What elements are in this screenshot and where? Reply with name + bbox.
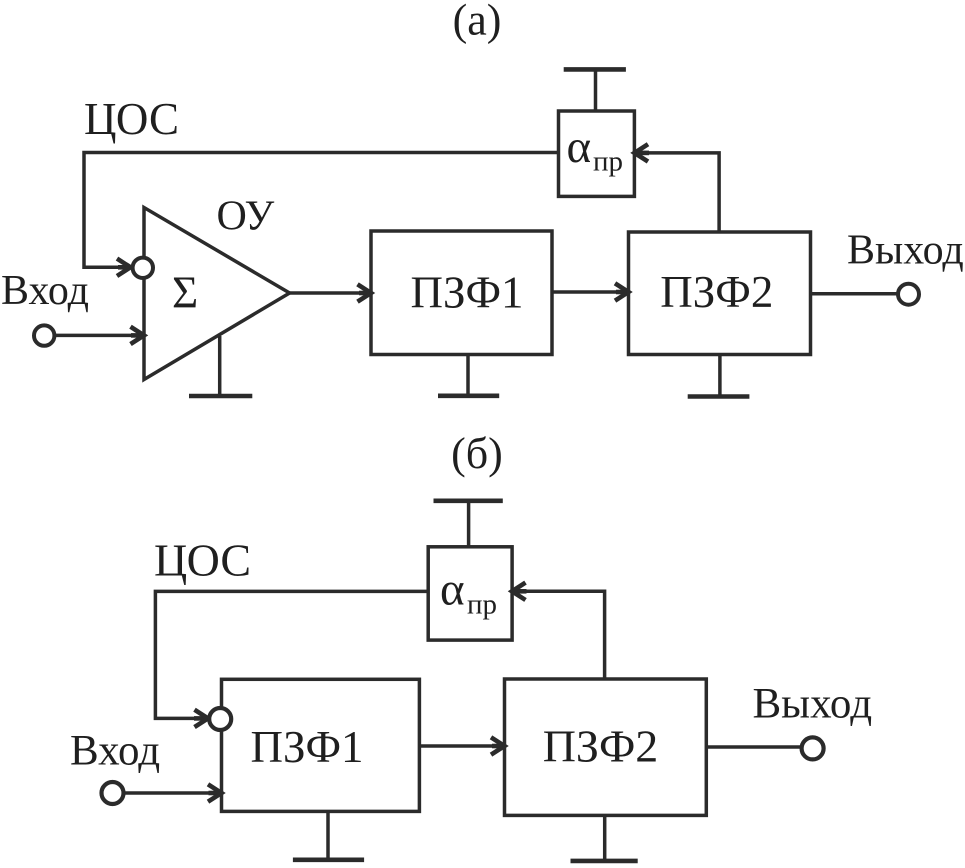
- label Выход (б): [753, 681, 873, 728]
- ground under ПЗФ2 (б): [571, 815, 638, 861]
- svg-text:Выход: Выход: [753, 681, 873, 728]
- wire input to summer (a): [55, 334, 132, 338]
- svg-text:ОУ: ОУ: [217, 194, 275, 240]
- label (a): [453, 0, 502, 45]
- svg-text:Вход: Вход: [1, 268, 89, 314]
- arrow into summer inverting input (a): [117, 259, 131, 276]
- svg-text:α: α: [440, 564, 465, 616]
- block α_пр (a): [559, 111, 635, 196]
- node ЦОС label (a): [84, 94, 179, 144]
- op-amp summer U1 (a): [144, 208, 290, 380]
- output terminal circle (a): [898, 284, 919, 305]
- label α_пр (б): [440, 564, 497, 621]
- wire summer output to ПЗФ1 (a): [290, 291, 359, 295]
- wire ЦОС feedback top (a): [84, 153, 559, 268]
- termination symbol above α_пр (б): [434, 501, 503, 547]
- node feedback input circle (б): [209, 708, 231, 730]
- block ПЗФ1 (a): [371, 231, 552, 355]
- wire ПЗФ1 to ПЗФ2 (a): [552, 290, 616, 294]
- label ПЗФ2 (a): [660, 267, 773, 317]
- svg-text:ЦОС: ЦОС: [84, 94, 179, 144]
- arrow into ПЗФ1 (a): [358, 284, 372, 301]
- label Выход (a): [847, 228, 964, 274]
- label ПЗФ1 (a): [410, 267, 523, 317]
- label ПЗФ2 (б): [543, 721, 659, 772]
- ground under ПЗФ2 (a): [688, 355, 750, 397]
- wire ПЗФ2 to output terminal (б): [706, 745, 801, 749]
- node ЦОС label (б): [154, 535, 251, 586]
- ground under summer (a): [189, 336, 252, 396]
- label (б): [451, 429, 503, 478]
- block ПЗФ1 (б): [222, 679, 420, 811]
- arrow into α_пр right side (б): [512, 583, 527, 600]
- wire ПЗФ2 to output terminal (a): [811, 292, 898, 296]
- label ПЗФ1 (б): [250, 722, 363, 772]
- label α_пр (a): [567, 121, 624, 178]
- label Вход (a): [1, 268, 89, 314]
- svg-text:ПЗФ2: ПЗФ2: [660, 267, 773, 317]
- input terminal circle (a): [34, 325, 54, 345]
- block ПЗФ2 (б): [505, 679, 707, 815]
- wire ПЗФ1 to ПЗФ2 (б): [419, 744, 492, 748]
- label Вход (б): [70, 727, 160, 774]
- wire ПЗФ2 top to α_пр (б): [527, 591, 605, 679]
- arrow into ПЗФ1 input (б): [208, 784, 222, 801]
- svg-text:(а): (а): [453, 0, 502, 45]
- svg-text:ПЗФ1: ПЗФ1: [250, 722, 363, 772]
- label ОУ (U1): [217, 194, 275, 240]
- svg-text:α: α: [567, 121, 592, 173]
- ground under ПЗФ1 (a): [438, 355, 499, 396]
- node inverting input circle (a): [133, 258, 153, 278]
- wire input to ПЗФ1 (б): [124, 791, 209, 795]
- termination symbol above α_пр (a): [564, 69, 626, 111]
- svg-text:ПЗФ2: ПЗФ2: [543, 721, 659, 772]
- input terminal circle (б): [102, 782, 124, 804]
- block α_пр (б): [428, 547, 512, 640]
- arrow into ПЗФ1 feedback input (б): [194, 710, 208, 727]
- arrow into summer input (a): [131, 327, 145, 344]
- svg-text:Σ: Σ: [172, 267, 198, 317]
- wire ПЗФ2 top to α_пр (a): [649, 153, 719, 232]
- svg-text:Выход: Выход: [847, 228, 964, 274]
- svg-text:ЦОС: ЦОС: [154, 535, 251, 586]
- arrow into ПЗФ2 (a): [615, 283, 629, 300]
- svg-text:(б): (б): [451, 429, 503, 478]
- label Σ inside summer: [172, 267, 198, 317]
- arrow into α_пр right side (a): [635, 144, 650, 161]
- wire α_пр to ЦОС corner feedback (б): [155, 591, 428, 718]
- svg-text:пр: пр: [467, 589, 497, 621]
- svg-text:ПЗФ1: ПЗФ1: [410, 267, 523, 317]
- arrow into ПЗФ2 (б): [491, 737, 505, 754]
- ground under ПЗФ1 (б): [293, 811, 364, 859]
- output terminal circle (б): [802, 737, 824, 759]
- svg-text:пр: пр: [593, 146, 623, 178]
- svg-text:Вход: Вход: [70, 727, 160, 774]
- block ПЗФ2 (a): [629, 232, 811, 355]
